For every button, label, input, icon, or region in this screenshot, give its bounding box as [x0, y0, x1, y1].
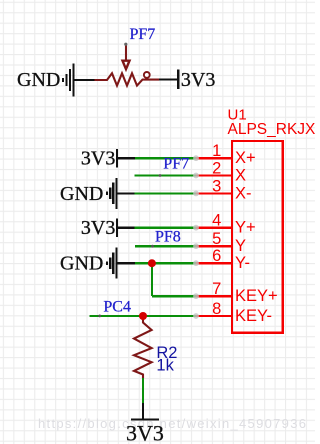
net label PF8 anchor dot	[151, 245, 154, 248]
svg-text:Y: Y	[235, 237, 246, 255]
svg-text:ALPS_RKJX: ALPS_RKJX	[228, 121, 316, 138]
svg-text:4: 4	[212, 212, 221, 230]
pin 7 (KEY+)	[196, 295, 232, 297]
svg-text:https://blog.csdn.net/weixin_4: https://blog.csdn.net/weixin_45907936	[38, 416, 307, 431]
pin 6 (Y-)	[196, 262, 232, 264]
power port GND (top)	[63, 64, 95, 97]
wire pin6	[135, 262, 196, 264]
wire pin4	[135, 227, 197, 229]
net label PF7 anchor dot	[159, 174, 162, 177]
wire junction to pin7 (vertical)	[151, 263, 153, 296]
resistor R2	[134, 319, 152, 379]
svg-text:3V3: 3V3	[81, 148, 115, 170]
svg-text:8: 8	[212, 300, 221, 318]
pin 2 (X)	[196, 174, 232, 176]
svg-text:GND: GND	[60, 183, 103, 205]
wire pin2	[134, 174, 196, 176]
pin 4 (Y+)	[196, 227, 232, 229]
svg-text:PF8: PF8	[155, 228, 181, 245]
svg-text:Y-: Y-	[235, 254, 250, 272]
svg-text:PC4: PC4	[103, 299, 131, 316]
power port 3V3 (top right) bar	[177, 70, 179, 90]
svg-text:GND: GND	[60, 253, 103, 275]
wire to 3V3 (top)	[159, 78, 177, 80]
pin 8 (KEY-)	[196, 315, 232, 317]
net label PC4 anchor dot	[98, 315, 101, 318]
wiper anchor dot	[124, 43, 127, 46]
svg-text:2: 2	[212, 159, 221, 177]
connector U1 body	[232, 141, 283, 333]
svg-text:X+: X+	[235, 149, 256, 167]
svg-text:3: 3	[212, 177, 221, 195]
power port 3V3 (bottom) bar	[131, 418, 159, 420]
wire pin8	[90, 315, 197, 317]
potentiometer tap circle	[144, 72, 150, 78]
power port 3V3 (bottom) lead	[142, 403, 144, 419]
svg-text:KEY-: KEY-	[235, 307, 272, 325]
svg-text:1k: 1k	[156, 357, 174, 375]
wire pin3	[134, 192, 196, 194]
svg-text:3V3: 3V3	[181, 69, 215, 91]
wire pin5	[135, 245, 196, 247]
potentiometer resistor (top)	[95, 73, 160, 85]
wiper arrow	[125, 45, 127, 62]
svg-text:X: X	[235, 167, 246, 185]
svg-text:6: 6	[212, 247, 221, 265]
junction dot R2	[139, 312, 147, 320]
junction dot pin6	[148, 259, 156, 267]
svg-text:GND: GND	[17, 69, 60, 91]
pin 1 (X+)	[196, 157, 232, 159]
svg-text:PF7: PF7	[163, 156, 189, 173]
svg-text:PF7: PF7	[130, 26, 156, 43]
svg-text:1: 1	[212, 142, 221, 160]
pin 5 (Y)	[196, 245, 232, 247]
wire below R2	[142, 378, 144, 403]
svg-text:KEY+: KEY+	[235, 287, 278, 305]
svg-text:Y+: Y+	[235, 219, 256, 237]
svg-text:5: 5	[212, 230, 221, 248]
svg-text:7: 7	[212, 280, 221, 298]
pin 3 (X-)	[196, 192, 232, 194]
pin end pale dots	[193, 155, 199, 319]
wire to pin7 (horizontal)	[152, 295, 196, 297]
wire pin1	[135, 157, 196, 159]
svg-text:X-: X-	[235, 184, 252, 202]
svg-text:3V3: 3V3	[81, 217, 115, 239]
svg-text:3V3: 3V3	[126, 421, 164, 444]
